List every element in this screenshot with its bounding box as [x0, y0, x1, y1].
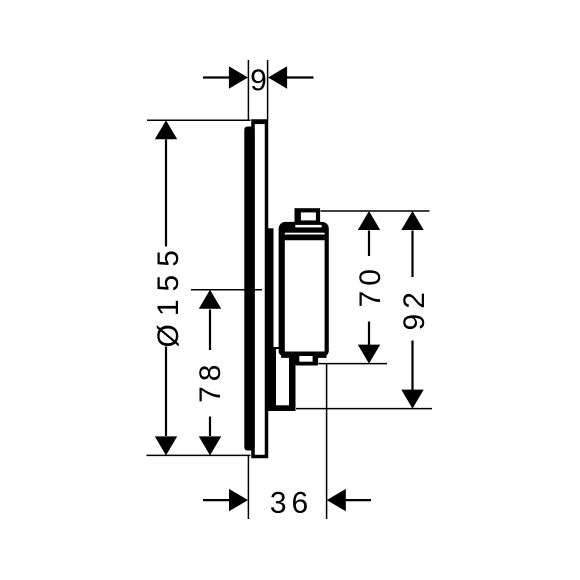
- valve body: [281, 224, 327, 355]
- dim 36 right arrow: [327, 489, 346, 511]
- extension line bottom stopper (dim 70): [319, 363, 388, 365]
- dim 36 right line: [346, 499, 371, 501]
- extension line stem bottom (dim 92): [296, 408, 432, 410]
- dim 9 left line: [203, 76, 230, 78]
- wall plate outline: [253, 121, 267, 457]
- dim 92 line upper segment: [411, 231, 413, 278]
- extension line plate bottom left (dim 36): [247, 456, 249, 520]
- bottom stopper interior: [299, 356, 312, 362]
- dim 9 left arrow: [229, 66, 248, 88]
- top knob left wall: [295, 209, 301, 224]
- extension line top (dim O155): [147, 119, 251, 121]
- svg-text:9: 9: [250, 64, 267, 97]
- sleeve band: [266, 228, 274, 347]
- dim 70 line upper segment: [368, 231, 370, 257]
- stem block: [266, 347, 296, 411]
- dim 70 line lower segment: [368, 322, 370, 346]
- dim 92 top arrow: [401, 211, 423, 230]
- valve body bottom edge: [281, 352, 327, 358]
- dim O155 bottom arrow: [155, 436, 177, 455]
- svg-text:92: 92: [398, 287, 431, 330]
- dim 36 left arrow: [229, 489, 248, 511]
- extension line body right (dim 36): [326, 365, 328, 520]
- stem interior: [276, 349, 289, 405]
- dim 78 bottom arrow: [199, 436, 221, 455]
- svg-text:36: 36: [270, 487, 313, 520]
- dim 9 right arrow: [268, 66, 287, 88]
- dim 78 line lower segment: [209, 417, 211, 437]
- valve body left edge: [279, 228, 285, 354]
- valve body cap seam: [283, 234, 325, 240]
- svg-text:Ø155: Ø155: [152, 242, 185, 347]
- extension line mid (dim 78): [191, 289, 262, 291]
- svg-text:70: 70: [354, 264, 387, 307]
- dim O155 top arrow: [155, 120, 177, 139]
- extension line plate right (dim 9): [267, 60, 269, 120]
- wall plate top edge: [252, 120, 267, 125]
- dim 78 line upper segment: [209, 310, 211, 351]
- dim 70 bottom arrow: [358, 345, 380, 364]
- wall plate front band: [244, 127, 254, 451]
- extension line plate left (dim 9): [247, 60, 249, 120]
- valve body cap band: [281, 225, 327, 233]
- dim 78 top arrow: [199, 290, 221, 309]
- bottom stopper: [296, 354, 319, 366]
- dim 9 right line: [287, 76, 314, 78]
- extension line top right (dims 70 and 92): [321, 210, 430, 212]
- dim 92 bottom arrow: [401, 390, 423, 409]
- svg-text:78: 78: [194, 360, 227, 403]
- top knob: [297, 210, 318, 222]
- dim O155 line upper segment: [165, 140, 167, 247]
- dim 70 top arrow: [358, 211, 380, 230]
- dim 36 left line: [203, 499, 230, 501]
- dim O155 line lower segment: [165, 347, 167, 437]
- sleeve highlight: [274, 234, 279, 343]
- dim 92 line lower segment: [411, 341, 413, 391]
- extension line bottom (dims O155 and 78): [147, 454, 251, 456]
- cap top highlight: [295, 225, 321, 228]
